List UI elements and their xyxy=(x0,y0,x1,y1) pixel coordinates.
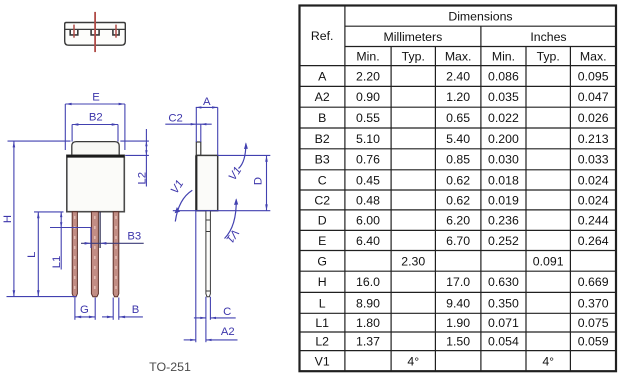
dim B2 extension lines xyxy=(71,125,73,142)
dim C line xyxy=(194,317,206,319)
svg-text:Max.: Max. xyxy=(445,49,472,63)
svg-text:0.024: 0.024 xyxy=(578,193,609,207)
svg-text:0.244: 0.244 xyxy=(578,214,609,228)
svg-text:17.0: 17.0 xyxy=(446,275,470,289)
dim A2 arrows xyxy=(190,339,196,341)
svg-text:V1: V1 xyxy=(227,165,245,183)
top view pin 3 cross-section xyxy=(113,29,119,35)
front view body xyxy=(67,155,125,211)
dim B3 arrows xyxy=(85,242,91,245)
svg-text:0.213: 0.213 xyxy=(578,132,609,146)
svg-text:1.37: 1.37 xyxy=(356,335,380,349)
top view pin 2 cross-section xyxy=(91,29,99,35)
svg-text:0.022: 0.022 xyxy=(488,111,519,125)
svg-text:Dimensions: Dimensions xyxy=(448,9,512,23)
svg-text:0.85: 0.85 xyxy=(446,153,470,167)
dim L arrows xyxy=(37,212,40,218)
svg-text:A2: A2 xyxy=(315,90,330,104)
svg-text:0.059: 0.059 xyxy=(578,335,609,349)
svg-text:G: G xyxy=(317,254,327,268)
dim L top extension xyxy=(34,211,64,213)
svg-text:0.55: 0.55 xyxy=(356,111,380,125)
svg-text:B3: B3 xyxy=(315,153,330,167)
dim E line xyxy=(65,103,125,105)
side view body front face thick edge xyxy=(195,155,197,210)
arc V1 left xyxy=(175,190,192,221)
side view lead bend tick 3 xyxy=(206,290,211,292)
dim C2 arrows xyxy=(191,123,197,125)
svg-text:1.90: 1.90 xyxy=(446,316,470,330)
svg-text:0.018: 0.018 xyxy=(488,173,519,187)
svg-text:Inches: Inches xyxy=(530,30,566,44)
front view lead 3 xyxy=(113,212,119,297)
svg-text:L: L xyxy=(319,296,326,310)
svg-text:0.45: 0.45 xyxy=(356,173,380,187)
dim E extension lines xyxy=(64,104,66,150)
dim G extension lines xyxy=(74,298,76,320)
dim D line xyxy=(266,155,268,210)
svg-text:B2: B2 xyxy=(315,132,330,146)
svg-text:C2: C2 xyxy=(314,193,330,207)
svg-text:Min.: Min. xyxy=(356,49,379,63)
top view package outline xyxy=(65,23,126,46)
svg-text:C2: C2 xyxy=(168,112,182,124)
table grid xyxy=(300,6,617,372)
svg-text:0.62: 0.62 xyxy=(446,173,470,187)
svg-text:H: H xyxy=(318,275,327,289)
svg-text:L1: L1 xyxy=(51,256,63,269)
svg-text:Max.: Max. xyxy=(580,49,607,63)
svg-text:4°: 4° xyxy=(407,354,419,368)
dim B extension lines xyxy=(112,298,114,320)
svg-text:D: D xyxy=(318,214,327,228)
dim L2 upper extension xyxy=(120,140,149,142)
svg-text:9.40: 9.40 xyxy=(446,296,470,310)
front view body top thick edge xyxy=(67,155,125,158)
dim A2 line xyxy=(184,339,196,341)
svg-text:1.50: 1.50 xyxy=(446,335,470,349)
svg-text:L2: L2 xyxy=(315,335,329,349)
svg-text:H: H xyxy=(2,215,14,223)
svg-text:5.10: 5.10 xyxy=(356,132,380,146)
dim D bottom extension xyxy=(173,210,270,212)
svg-text:0.630: 0.630 xyxy=(488,275,519,289)
svg-text:0.236: 0.236 xyxy=(488,214,519,228)
svg-text:L1: L1 xyxy=(315,316,329,330)
front view lead 2 (center, B3 wide) xyxy=(91,212,98,297)
svg-text:6.00: 6.00 xyxy=(356,214,380,228)
dim L1 arrows xyxy=(60,212,62,217)
svg-text:TO-251: TO-251 xyxy=(149,360,191,374)
side view lead bend tick 1 xyxy=(206,219,211,221)
svg-text:2.40: 2.40 xyxy=(446,69,470,83)
svg-text:0.65: 0.65 xyxy=(446,111,470,125)
svg-text:0.90: 0.90 xyxy=(356,90,380,104)
svg-text:L2: L2 xyxy=(136,172,148,185)
dim G line xyxy=(75,316,95,318)
lead 2 highlight xyxy=(94,216,96,292)
svg-text:Millimeters: Millimeters xyxy=(384,30,443,44)
top view pin 1 cross-section xyxy=(70,29,78,35)
svg-text:0.76: 0.76 xyxy=(356,153,380,167)
svg-text:1.20: 1.20 xyxy=(446,90,470,104)
side view body xyxy=(196,155,217,210)
dim C arrows xyxy=(200,317,206,319)
svg-text:0.370: 0.370 xyxy=(578,296,609,310)
svg-text:16.0: 16.0 xyxy=(356,275,380,289)
svg-text:0.054: 0.054 xyxy=(488,335,519,349)
svg-text:V1: V1 xyxy=(223,227,241,245)
svg-text:0.252: 0.252 xyxy=(488,234,519,248)
dim L line xyxy=(37,212,39,297)
dim C extension lines xyxy=(205,297,207,320)
front view lead 1 xyxy=(72,212,77,297)
side view tab cross-section xyxy=(196,142,201,155)
dim A line xyxy=(196,106,218,108)
dim L1 bottom extension xyxy=(50,227,91,229)
svg-text:D: D xyxy=(253,177,265,185)
svg-text:Typ.: Typ. xyxy=(402,49,425,63)
dim B2 line xyxy=(72,124,118,126)
svg-text:4°: 4° xyxy=(542,354,554,368)
centerline pin 2 (red) xyxy=(94,12,96,52)
svg-text:0.075: 0.075 xyxy=(578,316,609,330)
arc V1 bottom-right arrow xyxy=(234,198,238,205)
dim H top extension xyxy=(8,140,71,142)
svg-text:0.091: 0.091 xyxy=(533,254,564,268)
svg-text:0.026: 0.026 xyxy=(578,111,609,125)
svg-text:V1: V1 xyxy=(169,178,187,196)
svg-text:E: E xyxy=(318,234,326,248)
svg-text:0.033: 0.033 xyxy=(578,153,609,167)
svg-text:G: G xyxy=(80,304,89,316)
svg-text:A: A xyxy=(318,69,327,83)
centerline pin 3 (red) xyxy=(115,25,117,38)
svg-text:0.350: 0.350 xyxy=(488,296,519,310)
svg-text:0.024: 0.024 xyxy=(578,173,609,187)
svg-text:B: B xyxy=(132,304,140,316)
svg-text:0.047: 0.047 xyxy=(578,90,609,104)
arc V1 top-right arrow xyxy=(244,142,248,149)
svg-text:6.70: 6.70 xyxy=(446,234,470,248)
dim H line xyxy=(13,141,15,297)
svg-text:E: E xyxy=(92,92,100,104)
svg-text:Ref.: Ref. xyxy=(311,29,334,43)
svg-text:0.071: 0.071 xyxy=(488,316,519,330)
dim G arrows xyxy=(75,316,81,319)
arc V1 bottom-right xyxy=(225,200,237,239)
svg-text:0.264: 0.264 xyxy=(578,234,609,248)
svg-text:0.200: 0.200 xyxy=(488,132,519,146)
dim B2 arrows xyxy=(72,123,78,126)
dim A arrows xyxy=(196,106,202,108)
svg-text:C: C xyxy=(318,173,327,187)
lead 3 highlight xyxy=(115,216,117,292)
svg-text:0.030: 0.030 xyxy=(488,153,519,167)
top view tab divider line xyxy=(65,28,126,30)
svg-text:B2: B2 xyxy=(89,111,103,123)
svg-text:1.80: 1.80 xyxy=(356,316,380,330)
svg-text:Min.: Min. xyxy=(492,49,515,63)
lead 1 highlight xyxy=(74,216,76,292)
dim A extension lines xyxy=(195,107,197,142)
dim C2 extension xyxy=(200,124,202,142)
svg-text:8.90: 8.90 xyxy=(356,296,380,310)
arc V1 top-right xyxy=(239,144,246,169)
svg-text:0.086: 0.086 xyxy=(488,69,519,83)
svg-text:V1: V1 xyxy=(315,354,330,368)
side view lead bend tick 2 xyxy=(206,231,211,233)
svg-text:0.48: 0.48 xyxy=(356,193,380,207)
dim D arrows xyxy=(265,155,268,161)
svg-text:0.035: 0.035 xyxy=(488,90,519,104)
dim B3 extension right xyxy=(99,212,101,248)
svg-text:0.019: 0.019 xyxy=(488,193,519,207)
dim H bottom extension xyxy=(7,296,77,298)
svg-text:6.40: 6.40 xyxy=(356,234,380,248)
dim L2 lower extension xyxy=(125,154,149,156)
dim C2 line xyxy=(165,123,211,125)
dim B line xyxy=(102,316,113,318)
svg-text:A2: A2 xyxy=(221,326,235,338)
dim B arrows xyxy=(107,316,113,319)
svg-text:L: L xyxy=(26,252,38,258)
svg-text:0.669: 0.669 xyxy=(578,275,609,289)
svg-text:B: B xyxy=(318,111,326,125)
svg-text:2.30: 2.30 xyxy=(401,254,425,268)
svg-text:5.40: 5.40 xyxy=(446,132,470,146)
dim A2 long extension xyxy=(195,211,197,343)
arc V1 left arrow xyxy=(175,207,180,213)
svg-text:C: C xyxy=(223,306,231,318)
svg-text:A: A xyxy=(203,96,211,108)
front view tab xyxy=(72,142,119,156)
dim L1 line xyxy=(60,212,62,270)
dim A2 extension 2 xyxy=(205,320,207,342)
svg-text:B3: B3 xyxy=(127,231,141,243)
dim E arrows xyxy=(65,103,71,106)
dim L2 arrows xyxy=(145,141,147,146)
centerline pin 1 (red) xyxy=(73,25,75,38)
dim L2 line xyxy=(145,129,147,187)
side view lead xyxy=(206,211,211,297)
dim B3 line xyxy=(81,242,144,244)
dim H arrows xyxy=(13,141,16,147)
svg-text:Typ.: Typ. xyxy=(537,49,560,63)
svg-text:6.20: 6.20 xyxy=(446,214,470,228)
svg-text:0.095: 0.095 xyxy=(578,69,609,83)
svg-text:2.20: 2.20 xyxy=(356,69,380,83)
dim D top extension xyxy=(218,154,271,156)
dim B3 extension left xyxy=(90,228,92,249)
svg-text:0.62: 0.62 xyxy=(446,193,470,207)
